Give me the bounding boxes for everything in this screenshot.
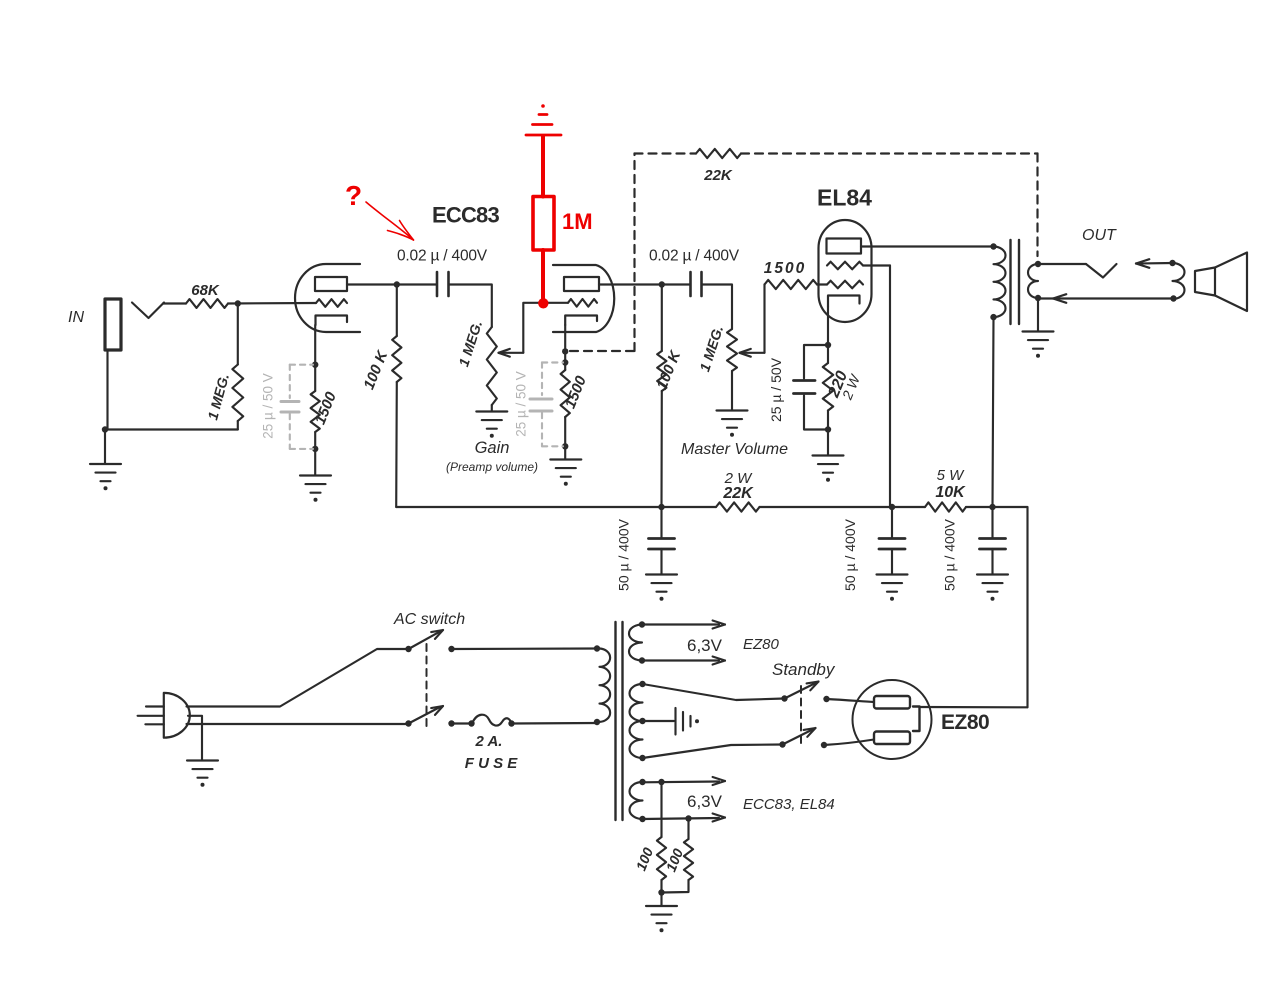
PT core xyxy=(616,622,623,820)
wire switch to PT top xyxy=(452,647,598,650)
feedback dashed wire xyxy=(570,154,1038,352)
wire wiper to 1500 xyxy=(763,285,765,353)
resistor 1500 V1b cathode xyxy=(561,363,591,447)
svg-text:ECC83, EL84: ECC83, EL84 xyxy=(743,796,835,813)
wire cap1 to gain pot xyxy=(449,285,492,328)
svg-text:22K: 22K xyxy=(722,485,754,502)
fuse 2A xyxy=(472,715,515,727)
capacitor 50u/400V #1 xyxy=(616,507,675,591)
svg-text:EL84: EL84 xyxy=(817,185,872,211)
svg-text:6,3V: 6,3V xyxy=(687,792,723,811)
PT primary winding xyxy=(600,649,611,722)
wire OT primary to B+ xyxy=(993,317,994,507)
AC plug xyxy=(138,693,190,738)
resistor 1 MEG grid leak xyxy=(204,304,243,430)
node 220 bottom xyxy=(825,426,831,432)
svg-text:OUT: OUT xyxy=(1082,227,1117,244)
capacitor 50u/400V #3 xyxy=(942,507,1006,591)
wire V1b plate out xyxy=(599,283,690,285)
svg-text:6,3V: 6,3V xyxy=(687,636,723,655)
wire screen to B+ xyxy=(889,266,891,508)
ground V1a cathode xyxy=(300,476,331,502)
PT 6.3V EZ80 winding xyxy=(629,625,642,661)
wire V1a plate to cap xyxy=(347,283,436,285)
svg-text:0.02 µ / 400V: 0.02 µ / 400V xyxy=(649,248,740,265)
capacitor 25u/50V EL84 xyxy=(768,345,828,430)
wire fuse to PT xyxy=(512,722,598,725)
ground V1b cathode xyxy=(550,460,581,486)
ground Master pot xyxy=(717,411,748,437)
svg-text:50 µ / 400V: 50 µ / 400V xyxy=(942,518,958,591)
wire speaker top with arrow xyxy=(1136,259,1173,268)
OT core xyxy=(1011,240,1020,324)
wire HV top to standby xyxy=(643,684,785,700)
node OT primary top xyxy=(990,243,996,249)
wire EL84 cathode down xyxy=(827,307,829,345)
label Master Volume xyxy=(681,441,788,458)
MV wiper arrow xyxy=(740,349,765,357)
triode V1a envelope xyxy=(295,264,360,332)
EL84 control grid xyxy=(817,281,863,289)
svg-text:ECC83: ECC83 xyxy=(432,203,499,228)
wire V1a cathode down xyxy=(314,325,316,365)
red arrow annotation xyxy=(366,202,414,240)
wire cap2 to MV pot xyxy=(702,285,733,330)
node EL84 cathode xyxy=(825,342,831,348)
V1a plate xyxy=(315,277,347,291)
node OT secondary top xyxy=(1035,261,1041,267)
wire to ground V1a xyxy=(314,449,316,475)
node input ground junction xyxy=(102,426,108,432)
resistor 22K 2W xyxy=(716,470,760,512)
svg-text:1500: 1500 xyxy=(764,260,806,277)
svg-text:(Preamp volume): (Preamp volume) xyxy=(446,460,538,474)
PT 6.3V heater winding xyxy=(630,782,643,819)
node V1a plate junction xyxy=(394,281,400,287)
resistor 10K 5W xyxy=(925,467,966,512)
ground AC plug xyxy=(187,761,218,787)
capacitor 50u/400V #2 xyxy=(842,507,905,591)
node speaker bottom xyxy=(1170,295,1176,301)
node PT primary bottom xyxy=(594,719,600,725)
svg-text:5 W: 5 W xyxy=(937,467,966,484)
svg-text:2 A.: 2 A. xyxy=(475,733,503,750)
EZ80 plate 2 xyxy=(874,732,910,745)
node V1b cathode bottom xyxy=(562,443,568,449)
standby top pole xyxy=(781,682,829,703)
resistor 22K feedback xyxy=(696,149,741,184)
red node on V1b grid xyxy=(538,298,548,308)
resistor 1500 V1a cathode xyxy=(311,365,341,449)
wire node to V1a grid xyxy=(228,302,316,305)
EL84 screen grid xyxy=(827,262,890,270)
wire jack tip to R 68K xyxy=(163,302,186,304)
red wire bottom xyxy=(541,250,545,303)
node B+ 3 xyxy=(989,504,995,510)
node V1a cathode top xyxy=(312,362,318,368)
node OT secondary bottom xyxy=(1035,295,1041,301)
PT heater terminals xyxy=(639,777,725,822)
wire B+ rail xyxy=(396,507,1027,707)
label EZ80 italic xyxy=(743,636,780,653)
wire AC top xyxy=(187,649,409,707)
node V1b cathode feedback xyxy=(562,348,568,354)
AC switch dashed link xyxy=(426,644,428,727)
ground heater xyxy=(646,906,677,932)
label 2A xyxy=(475,733,503,750)
potentiometer 1 MEG Gain xyxy=(455,318,496,411)
resistor 100 #1 xyxy=(633,782,667,893)
EZ80 cathode xyxy=(913,707,920,732)
svg-text:?: ? xyxy=(345,180,362,211)
red question mark xyxy=(345,180,362,211)
node HV center xyxy=(639,718,645,724)
resistor 1500 grid stopper xyxy=(764,260,817,289)
label EL84 xyxy=(817,185,872,211)
V1a grid xyxy=(316,299,347,307)
svg-text:F U S E: F U S E xyxy=(465,755,519,772)
node HV bottom xyxy=(639,755,645,761)
capacitor 25u/50V V1a (ghost) xyxy=(261,365,314,449)
node V1b cathode cap top xyxy=(562,359,568,365)
node B+ 1 xyxy=(658,504,664,510)
wire to ground V1b xyxy=(564,446,566,459)
resistor 220 2W xyxy=(823,345,864,430)
resistor 68K xyxy=(186,282,228,308)
ground 50u cap #2 xyxy=(877,575,908,601)
resistor 100K V1a plate load xyxy=(360,285,401,508)
wire 220 to ground xyxy=(827,430,829,456)
wire out top xyxy=(1038,263,1086,265)
speaker coil xyxy=(1173,263,1185,299)
svg-text:50 µ / 400V: 50 µ / 400V xyxy=(616,518,632,591)
node heater ground xyxy=(658,889,664,895)
capacitor 25u/50V V1b (ghost) xyxy=(514,363,564,447)
node OT primary bottom xyxy=(990,314,996,320)
ground 50u cap #1 xyxy=(646,575,677,601)
capacitor 0.02u coupling 1 xyxy=(437,272,449,296)
svg-text:22K: 22K xyxy=(703,167,733,184)
red resistor 1M box xyxy=(533,197,554,251)
ground input xyxy=(90,464,121,490)
svg-text:0.02 µ / 400V: 0.02 µ / 400V xyxy=(397,248,488,265)
svg-text:25 µ / 50 V: 25 µ / 50 V xyxy=(261,373,276,439)
label ECC83 xyxy=(432,203,499,228)
rectifier EZ80 envelope xyxy=(853,680,932,759)
svg-text:10K: 10K xyxy=(935,484,966,501)
standby bottom pole xyxy=(779,728,827,748)
pentode EL84 envelope xyxy=(819,220,872,322)
speaker horn xyxy=(1195,253,1247,312)
svg-text:25 µ / 50V: 25 µ / 50V xyxy=(768,357,784,422)
AC switch top pole xyxy=(405,630,454,652)
wire HV bottom to standby xyxy=(643,745,783,759)
wire switch to fuse xyxy=(452,720,475,726)
label Preamp volume xyxy=(446,460,538,474)
node HV top xyxy=(639,681,645,687)
svg-text:Standby: Standby xyxy=(772,660,836,679)
wire EZ80 cathode to B+ xyxy=(920,706,1028,708)
input jack J1 xyxy=(105,299,164,350)
resistor 100 #2 xyxy=(662,819,694,893)
label IN xyxy=(68,309,84,326)
wire V1b cathode down xyxy=(564,325,566,363)
label AC switch xyxy=(393,611,465,628)
node speaker top xyxy=(1169,260,1175,266)
svg-text:Master Volume: Master Volume xyxy=(681,441,788,458)
label 0.02u/400V first xyxy=(397,248,488,265)
OT primary winding xyxy=(994,247,1006,318)
ground EL84 cathode xyxy=(813,456,844,482)
wire EL84 plate to OT xyxy=(861,245,994,247)
wire wiper to V1b grid xyxy=(523,303,568,353)
svg-text:1M: 1M xyxy=(562,209,593,234)
OT secondary winding xyxy=(1028,264,1038,298)
node B+ 2 xyxy=(889,504,895,510)
label FUSE xyxy=(465,755,519,772)
wire speaker bottom with arrow xyxy=(1038,294,1173,303)
resistor 100K V1b plate load xyxy=(653,285,684,508)
HV center tap ground xyxy=(643,708,700,735)
capacitor 0.02u coupling 2 xyxy=(691,272,702,296)
wire ground bus input xyxy=(105,428,238,430)
label 1M red xyxy=(562,209,593,234)
V1a cathode xyxy=(316,316,348,326)
node heater top xyxy=(658,779,664,785)
ground Gain pot xyxy=(476,412,507,438)
node heater bottom xyxy=(685,815,691,821)
label 6,3V bottom xyxy=(687,792,723,811)
label EZ80 bold xyxy=(941,711,989,734)
Gain pot wiper arrow xyxy=(499,349,524,357)
node PT primary top xyxy=(594,645,600,651)
svg-text:EZ80: EZ80 xyxy=(941,711,989,734)
V1b grid xyxy=(568,299,597,307)
wire standby to EZ80 plate2 xyxy=(824,740,874,746)
node input grid junction xyxy=(235,300,241,306)
svg-text:68K: 68K xyxy=(191,282,220,299)
EZ80 plate 1 xyxy=(874,696,910,709)
OUT jack contact xyxy=(1086,264,1117,278)
V1b plate xyxy=(564,277,599,291)
wire plug earth xyxy=(188,716,202,760)
wire AC bottom xyxy=(187,723,409,725)
svg-text:25 µ / 50 V: 25 µ / 50 V xyxy=(514,371,529,437)
triode V1b envelope xyxy=(553,265,614,332)
PT HV winding xyxy=(630,684,643,758)
EL84 plate xyxy=(827,239,862,254)
svg-text:IN: IN xyxy=(68,309,84,326)
svg-text:Gain: Gain xyxy=(475,439,510,457)
V1b cathode xyxy=(565,316,597,326)
svg-text:EZ80: EZ80 xyxy=(743,636,780,653)
AC switch bottom pole xyxy=(405,706,454,727)
PT 6.3V EZ80 terminals xyxy=(639,621,725,665)
red ground (flipped) xyxy=(526,104,561,135)
node V1b plate junction xyxy=(659,281,665,287)
label ECC83, EL84 italic xyxy=(743,796,835,813)
ground 50u cap #3 xyxy=(977,575,1008,601)
node V1a cathode bottom xyxy=(312,446,318,452)
svg-text:50 µ / 400V: 50 µ / 400V xyxy=(842,518,858,591)
label Gain xyxy=(475,439,510,457)
standby dashed link xyxy=(800,686,802,745)
wire OT secondary to ground xyxy=(1037,298,1039,331)
label 0.02u/400V second xyxy=(649,248,740,265)
red wire top xyxy=(541,136,545,197)
label OUT xyxy=(1082,227,1117,244)
wire to heater ground xyxy=(660,893,662,906)
wire jack sleeve down xyxy=(105,350,108,464)
label Standby xyxy=(772,660,836,679)
EL84 cathode xyxy=(828,296,860,308)
svg-text:AC switch: AC switch xyxy=(393,611,465,628)
potentiometer 1 MEG Master xyxy=(696,323,737,410)
ground OT secondary xyxy=(1023,332,1054,358)
label 6,3V top xyxy=(687,636,723,655)
wire standby to EZ80 plate1 xyxy=(827,699,875,702)
